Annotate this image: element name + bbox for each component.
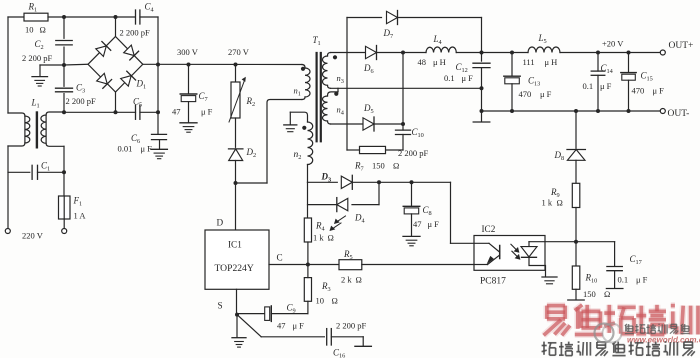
svg-text:2 200 pF: 2 200 pF (22, 53, 53, 63)
svg-text:Ω: Ω (393, 161, 399, 171)
svg-text:μ F: μ F (141, 144, 153, 154)
svg-text:μ F: μ F (600, 81, 612, 91)
svg-text:Ω: Ω (604, 289, 610, 299)
svg-text:0.1: 0.1 (583, 81, 594, 91)
svg-text:IC1: IC1 (228, 240, 242, 250)
svg-text:Ω: Ω (557, 198, 563, 208)
svg-text:0.1: 0.1 (444, 73, 455, 83)
svg-text:47: 47 (277, 321, 286, 331)
svg-text:Ω: Ω (40, 25, 46, 35)
svg-text:IC2: IC2 (482, 224, 496, 234)
svg-text:μ H: μ H (433, 57, 446, 67)
svg-text:Ω: Ω (332, 296, 338, 306)
svg-text:2 k: 2 k (341, 275, 352, 285)
svg-text:1 k: 1 k (542, 198, 553, 208)
svg-text:μ F: μ F (428, 219, 440, 229)
svg-text:470: 470 (519, 89, 532, 99)
svg-text:Ω: Ω (356, 275, 362, 285)
svg-text:D: D (217, 218, 224, 228)
svg-text:2 200 pF: 2 200 pF (336, 321, 367, 331)
svg-text:PC817: PC817 (480, 277, 506, 287)
svg-text:μ F: μ F (653, 86, 665, 96)
svg-text:TOP224Y: TOP224Y (215, 263, 254, 274)
svg-text:1 A: 1 A (74, 211, 87, 221)
svg-text:μ F: μ F (293, 321, 305, 331)
svg-text:48: 48 (418, 57, 427, 67)
svg-text:1 k: 1 k (313, 233, 324, 243)
svg-text:2 200 pF: 2 200 pF (120, 28, 151, 38)
svg-text:10: 10 (25, 25, 34, 35)
svg-text:μ H: μ H (545, 57, 558, 67)
svg-text:C: C (277, 253, 283, 263)
svg-text:2 200 pF: 2 200 pF (398, 148, 429, 158)
svg-text:μ F: μ F (462, 73, 474, 83)
svg-text:μ F: μ F (540, 89, 552, 99)
svg-text:OUT-: OUT- (668, 109, 690, 119)
svg-text:470: 470 (632, 86, 645, 96)
svg-text:111: 111 (523, 57, 535, 67)
svg-text:μ F: μ F (636, 275, 648, 285)
svg-text:150: 150 (583, 289, 596, 299)
svg-text:2 200 pF: 2 200 pF (66, 96, 97, 106)
svg-text:μ F: μ F (201, 107, 213, 117)
svg-text:S: S (218, 301, 223, 311)
svg-text:270 V: 270 V (228, 47, 250, 57)
svg-text:Ω: Ω (328, 233, 334, 243)
svg-text:150: 150 (372, 161, 385, 171)
svg-text:47: 47 (413, 219, 422, 229)
svg-text:0.1: 0.1 (618, 275, 629, 285)
svg-text:+20 V: +20 V (602, 39, 624, 49)
svg-text:OUT+: OUT+ (669, 41, 694, 51)
svg-text:220 V: 220 V (22, 231, 44, 241)
svg-text:300 V: 300 V (177, 47, 199, 57)
svg-text:0.01: 0.01 (118, 144, 133, 154)
svg-text:10: 10 (316, 296, 325, 306)
svg-text:47: 47 (172, 107, 181, 117)
